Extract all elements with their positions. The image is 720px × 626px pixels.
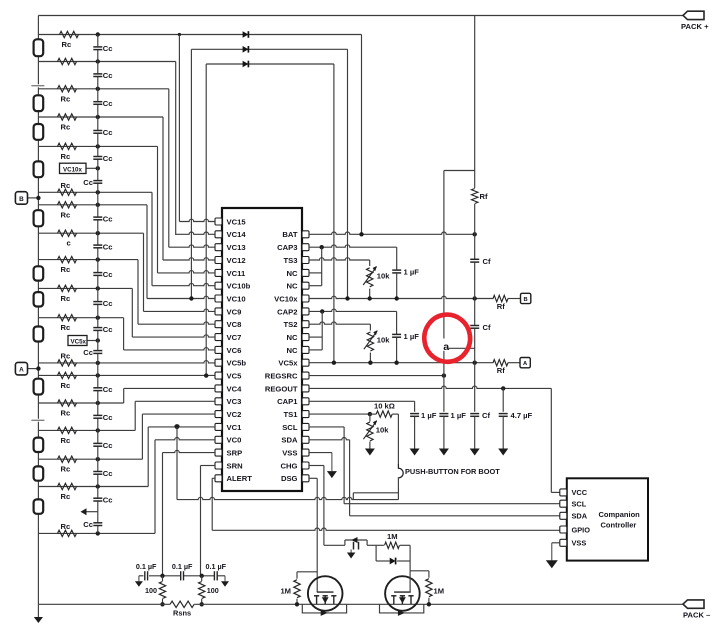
svg-text:10k: 10k — [376, 426, 389, 435]
wire into pin VC11 — [158, 271, 216, 273]
pin box VC2 — [215, 411, 222, 418]
wire tap row 5 — [38, 145, 157, 147]
pin box VC5b — [215, 359, 222, 366]
pin box VSS — [302, 449, 309, 456]
svg-text:0.1 µF: 0.1 µF — [172, 562, 193, 571]
svg-text:Rc: Rc — [62, 40, 72, 49]
pushbutton symbol — [398, 464, 403, 479]
arrow thermistor 2 — [364, 331, 377, 349]
wire into pin VC7 — [132, 335, 215, 337]
wire B tap — [28, 197, 39, 199]
wire riser row16 — [123, 388, 125, 403]
wire VC10x row to Rf — [309, 296, 494, 298]
wire riser row17 — [134, 401, 136, 430]
svg-text:Rc: Rc — [61, 351, 71, 360]
wire top rail PACK+ — [38, 15, 683, 17]
wire SCL to companion — [344, 503, 560, 505]
node CAP2 branch — [320, 309, 324, 313]
wire Cc bus segment — [97, 276, 99, 302]
resistor Rc row 11 — [58, 285, 77, 291]
wire into pin VC4 — [124, 387, 215, 389]
transistor Q1 DSG source arrow — [322, 597, 329, 603]
wire tap row 10 — [38, 259, 138, 261]
wire tap row 9 — [38, 232, 143, 234]
pin box SCL — [302, 423, 309, 430]
wire long vertical VC5 — [205, 64, 207, 376]
node bus junction 7 — [96, 190, 100, 194]
wire dropper row10 — [137, 260, 139, 325]
svg-text:Cc: Cc — [103, 214, 113, 223]
capacitor bank 1 µF — [410, 413, 419, 415]
svg-text:Cc: Cc — [103, 242, 113, 251]
resistor 100 right — [201, 576, 203, 581]
pin box VC3 — [215, 398, 222, 405]
node bus junction 16 — [96, 401, 100, 405]
wire tap row 12 — [38, 317, 123, 319]
pin box VC13 — [215, 244, 222, 251]
svg-text:NC: NC — [286, 333, 298, 342]
battery cell 5 — [34, 210, 44, 226]
wire tap row 8 — [38, 204, 147, 206]
wire into pin VC15 — [179, 219, 215, 221]
capacitor Cc — [93, 387, 102, 389]
chain break tick — [37, 84, 40, 87]
wire bottom rail mid — [194, 603, 683, 605]
wire into pin VC10b — [152, 283, 215, 285]
ground companion VSS — [551, 543, 553, 561]
svg-text:SRN: SRN — [227, 461, 243, 470]
capacitor Cc — [93, 350, 102, 352]
net connector A right — [520, 358, 530, 368]
transistor Q2 CHG circle — [385, 576, 420, 611]
node bus junction row1 — [96, 32, 100, 36]
capacitor Cc — [93, 73, 102, 75]
resistor Rc row 20 — [58, 530, 77, 536]
wire pushbutton vertical upper — [397, 414, 399, 464]
wire CAP1 row — [309, 400, 415, 402]
wire Cf column 2 — [474, 204, 476, 234]
resistor Rc row 1 — [60, 31, 79, 37]
capacitor Cc — [93, 101, 102, 103]
wire tap row 3 — [38, 88, 168, 90]
wire 444 column upper — [443, 171, 445, 339]
svg-text:VC3: VC3 — [227, 397, 242, 406]
wire DSG vertical to gate — [316, 478, 318, 592]
svg-text:B: B — [524, 297, 528, 303]
wire long vertical VC10 — [190, 49, 192, 298]
svg-text:Cc: Cc — [103, 154, 113, 163]
ground bank cap 1 µF — [414, 448, 416, 450]
node VC5x/Cf column — [473, 361, 477, 365]
battery cell 3 — [34, 124, 44, 140]
resistor Rc row 2 — [58, 58, 77, 64]
svg-text:Rc: Rc — [61, 181, 71, 190]
transistor Q1 DSG plate — [331, 595, 336, 597]
node rail SRP — [160, 602, 164, 606]
wire Cf column B-Cf2 — [474, 299, 476, 326]
resistor 1M horizontal — [376, 544, 384, 546]
capacitor 1uF net2 bottom lead — [396, 337, 398, 362]
pin box SRN — [215, 462, 222, 469]
wire Rf to A box — [508, 362, 520, 364]
resistor Rc row 12 — [58, 315, 77, 321]
wire tap row 14 to VC5b — [38, 361, 215, 363]
resistor 1M left — [296, 572, 298, 579]
wire CAP2 row — [309, 309, 397, 311]
wire CAP1 corner down — [414, 401, 416, 412]
IC U1 body — [222, 208, 302, 491]
svg-text:10k: 10k — [377, 272, 390, 281]
capacitor 0.1uF right — [213, 571, 215, 580]
wire pushbutton loop horizontal — [353, 492, 398, 494]
svg-text:VCC: VCC — [572, 488, 588, 497]
transistor Q2 CHG plate — [408, 595, 413, 597]
wire Cc bus segment — [97, 159, 99, 180]
svg-text:Cc: Cc — [103, 71, 113, 80]
capacitor Cc — [93, 301, 102, 303]
svg-text:PUSH-BUTTON FOR BOOT: PUSH-BUTTON FOR BOOT — [405, 467, 500, 476]
node bus junction 10 — [96, 257, 100, 261]
wire TS3 row — [309, 258, 370, 260]
svg-text:VC4: VC4 — [227, 384, 243, 393]
wire VC5x box row — [87, 340, 98, 342]
resistor Rf top — [472, 189, 478, 204]
pin box VC10x — [302, 295, 309, 302]
svg-text:Cc: Cc — [103, 413, 113, 422]
wire tap row 20 — [38, 532, 155, 534]
wire VC10x box row — [86, 167, 98, 169]
companion controller body — [567, 478, 648, 560]
node VC1 junction — [175, 425, 179, 429]
wire into pin VC8 — [138, 322, 215, 324]
svg-text:Rf: Rf — [497, 302, 505, 311]
svg-text:VC10: VC10 — [227, 294, 246, 303]
svg-text:Cc: Cc — [83, 178, 93, 187]
pin box TS3 — [302, 257, 309, 264]
resistor Rf B — [493, 295, 508, 301]
node bus junction 17 — [96, 428, 100, 432]
svg-text:VSS: VSS — [282, 449, 297, 458]
svg-text:Rc: Rc — [61, 522, 71, 531]
wire loop bottom — [376, 560, 390, 562]
svg-text:1 µF: 1 µF — [451, 411, 467, 420]
wire into pin VC14 — [175, 232, 215, 234]
svg-text:VC15: VC15 — [227, 217, 247, 226]
wire SRN vertical — [200, 466, 202, 576]
svg-text:Cf: Cf — [483, 323, 491, 332]
pin box NC — [302, 346, 309, 353]
node TS1 junction — [368, 412, 372, 416]
svg-text:1M: 1M — [434, 587, 445, 596]
resistor Rc row 4 — [58, 114, 77, 120]
svg-text:VC9: VC9 — [227, 307, 242, 316]
wire tap row 15 to VC5 — [38, 374, 215, 376]
svg-text:c: c — [67, 239, 71, 248]
wire NC stub 2 — [309, 285, 322, 287]
pin box VC4 — [215, 385, 222, 392]
svg-text:B: B — [19, 196, 24, 203]
wire Cc bus segment — [97, 526, 99, 534]
wire SDA vertical — [349, 440, 351, 516]
wire CHG to small FET — [324, 544, 345, 546]
capacitor 0.1uF left — [144, 571, 146, 580]
wire dropper row2 to VC14 — [175, 62, 177, 235]
pin box VC7 — [215, 334, 222, 341]
wire into VCC — [551, 491, 560, 493]
wire Cc bus segment — [97, 305, 99, 328]
wire Cc bus segment — [97, 133, 99, 156]
capacitor 0.1uF middle — [180, 571, 182, 580]
transistor Q2 CHG source arrow — [399, 597, 406, 603]
svg-text:VC5b: VC5b — [227, 359, 247, 368]
resistor 10 kOhm body — [370, 413, 376, 415]
wire REGOUT row — [309, 386, 551, 388]
svg-text:VC5x: VC5x — [278, 359, 298, 368]
node 1uF2 bottom — [394, 361, 398, 365]
capacitor Cf 1 — [470, 258, 479, 260]
battery cell 11 — [34, 466, 44, 480]
node CAP3 branch — [320, 245, 324, 249]
wire Cf column top — [474, 16, 476, 189]
svg-text:A: A — [19, 367, 24, 374]
pin box VC10b — [215, 282, 222, 289]
arrow thermistor 3 — [363, 421, 376, 439]
wire tap row 16 — [38, 402, 123, 404]
resistor 10k thermistor 2 — [369, 324, 371, 330]
wire VD1 down to BAT — [361, 35, 363, 235]
wire CAP3 row — [309, 245, 397, 247]
svg-text:VSS: VSS — [572, 539, 587, 548]
wire dropper row11 — [131, 288, 133, 337]
capacitor Cc — [93, 180, 102, 182]
wire BAT row — [309, 232, 475, 234]
pin box REGSRC — [302, 372, 309, 379]
svg-text:Cc: Cc — [103, 99, 113, 108]
svg-text:Cc: Cc — [83, 520, 93, 529]
node bus junction row15 — [96, 373, 100, 377]
svg-text:100: 100 — [145, 586, 157, 595]
svg-text:Cc: Cc — [103, 325, 113, 334]
svg-text:VC0: VC0 — [227, 436, 242, 445]
wire riser VC15 — [178, 35, 180, 222]
svg-text:VC10x: VC10x — [274, 294, 298, 303]
pin box VC15 — [215, 218, 222, 225]
wire 0.1uF row — [139, 575, 144, 577]
resistor Rc row 16 — [58, 400, 77, 406]
capacitor Cc — [93, 216, 102, 218]
capacitor Cc — [93, 272, 102, 274]
wire right FET gate vertical — [409, 571, 411, 592]
node B tap — [36, 196, 40, 200]
wire bank cap bottom 1 µF — [443, 417, 445, 449]
wire 444 jog to Cf column — [448, 347, 475, 349]
node 10k1 bottom — [368, 296, 372, 300]
wire SRP to sense network — [163, 450, 216, 452]
node SRP/cap row — [160, 574, 164, 578]
svg-text:Rc: Rc — [61, 210, 71, 219]
svg-text:VC5: VC5 — [227, 372, 243, 381]
transistor Q2 CHG gate bar — [394, 591, 411, 593]
svg-text:Rc: Rc — [61, 94, 71, 103]
battery cell 10 — [34, 438, 44, 452]
wire VC5x row to Rf — [309, 360, 494, 362]
wire rail drop to chain top — [37, 16, 39, 35]
wire dropper row8 — [146, 205, 148, 299]
svg-text:Cc: Cc — [103, 44, 113, 53]
wire bank cap bottom 4.7 µF — [502, 417, 504, 449]
wire riser row20 — [154, 440, 156, 534]
wire Cc bus segment — [97, 105, 99, 131]
pin box DSG — [302, 475, 309, 482]
svg-text:Rc: Rc — [61, 323, 71, 332]
svg-text:Rc: Rc — [61, 436, 71, 445]
svg-text:10k: 10k — [377, 336, 390, 345]
battery cell 2 — [34, 95, 44, 111]
ground small FET — [350, 550, 352, 553]
node bus junction row14 — [96, 361, 100, 365]
pin box NC — [302, 269, 309, 276]
diode D4 — [390, 558, 396, 565]
pin box CAP1 — [302, 398, 309, 405]
companion pin box VSS — [560, 539, 567, 546]
svg-text:TS1: TS1 — [283, 410, 298, 419]
wire into pin VC2 — [142, 413, 215, 415]
wire Cc bus segment — [97, 50, 99, 74]
capacitor 1uF net1 top lead — [396, 247, 398, 270]
companion pin box SDA — [560, 512, 567, 519]
node VC10x/Cf column — [473, 296, 477, 300]
wire tap row 19 — [38, 486, 148, 488]
wire NC stub 4 — [309, 349, 322, 351]
ground 0.1uF left stub — [138, 576, 140, 582]
wire dropper row4 — [162, 117, 164, 260]
svg-text:Cc: Cc — [103, 469, 113, 478]
svg-text:Cf: Cf — [482, 411, 490, 420]
svg-text:4.7 µF: 4.7 µF — [511, 411, 533, 420]
capacitor bank 4.7 µF — [499, 413, 508, 415]
wire ALERT-GPIO rail — [212, 528, 560, 530]
svg-text:1M: 1M — [280, 587, 291, 596]
capacitor Cc — [93, 442, 102, 444]
wire TS2 row — [309, 322, 370, 324]
diode D1 — [243, 31, 249, 38]
wire SRP vertical — [162, 453, 164, 576]
svg-text:SDA: SDA — [572, 512, 588, 521]
pin box TS2 — [302, 321, 309, 328]
transistor Q2 CHG plate — [391, 595, 396, 597]
svg-text:Cc: Cc — [83, 348, 93, 357]
svg-text:100: 100 — [207, 586, 219, 595]
node VC5x/VD3 — [332, 361, 336, 365]
diode D2 — [243, 46, 249, 53]
pin box VC5 — [215, 372, 222, 379]
resistor Rc row 14 — [58, 360, 77, 366]
wire dropper row7 — [151, 192, 153, 285]
node 1M left rail — [295, 602, 299, 606]
svg-text:10 kΩ: 10 kΩ — [374, 402, 395, 411]
wire gate link right — [410, 570, 429, 572]
wire Cc bus segment — [97, 331, 99, 351]
node A tap — [36, 366, 40, 370]
svg-text:BAT: BAT — [282, 230, 297, 239]
transistor Q1 DSG gate bar — [317, 591, 334, 593]
wire tap row 1 to diode/BAT — [38, 34, 361, 36]
svg-text:Rsns: Rsns — [173, 609, 191, 618]
svg-text:NC: NC — [286, 346, 298, 355]
svg-text:TS3: TS3 — [283, 256, 297, 265]
diode D3 — [243, 61, 249, 68]
svg-text:VC10b: VC10b — [227, 282, 251, 291]
node bus junction VC5x box — [96, 338, 100, 342]
svg-text:Companion: Companion — [599, 510, 641, 519]
resistor c row 9 — [58, 230, 77, 236]
svg-text:Rc: Rc — [61, 409, 71, 418]
resistor Rc row 10 — [58, 256, 77, 262]
wire VC1 vertical to pushbutton line — [176, 427, 178, 500]
companion pin box VCC — [560, 489, 567, 496]
svg-text:Rc: Rc — [61, 265, 71, 274]
battery cell 12 — [34, 499, 44, 513]
node BAT/VD1 — [359, 232, 363, 236]
svg-text:VC10x: VC10x — [63, 166, 82, 173]
resistor Rc row 5 — [58, 143, 77, 149]
wire CHG vertical — [323, 466, 325, 546]
wire dropper row12 — [123, 318, 125, 350]
node bus junction row3 — [96, 87, 100, 91]
wire diode row 3 — [206, 63, 334, 65]
capacitor Cc — [93, 497, 102, 499]
pin box BAT — [302, 231, 309, 238]
resistor Rc row 7 — [58, 189, 77, 195]
svg-text:Cc: Cc — [103, 385, 113, 394]
pin box SDA — [302, 436, 309, 443]
capacitor Cf 2 — [470, 325, 479, 327]
capacitor Cc — [93, 46, 102, 48]
node bus junction row2 — [96, 59, 100, 63]
resistor 10k thermistor 3 — [369, 414, 371, 421]
wire SDA row — [309, 438, 350, 440]
arrow chain continues down — [34, 617, 43, 623]
pin box VC12 — [215, 257, 222, 264]
wire TS1 row — [309, 413, 370, 415]
wire SDA to companion — [350, 515, 560, 517]
wire Cc bus segment — [97, 184, 99, 217]
node riser T row1 — [178, 33, 181, 36]
node VC10 long vertical end — [189, 296, 193, 300]
svg-text:SCL: SCL — [282, 423, 298, 432]
transistor Q2 CHG under loop — [380, 604, 424, 613]
svg-text:CHG: CHG — [281, 461, 298, 470]
wire Cc bus segment — [97, 248, 99, 272]
pin box SRP — [215, 449, 222, 456]
wire chain below rail — [37, 604, 39, 617]
pin box CAP2 — [302, 308, 309, 315]
wire loop left vertical — [375, 545, 377, 561]
wire VD2 down to VC10x row — [347, 49, 349, 298]
resistor Rc row 18 — [58, 456, 77, 462]
svg-text:VC1: VC1 — [227, 423, 243, 432]
svg-text:Controller: Controller — [601, 521, 637, 530]
svg-text:SCL: SCL — [572, 500, 587, 509]
svg-text:Cc: Cc — [103, 128, 113, 137]
pin box VC0 — [215, 436, 222, 443]
pin box CAP3 — [302, 244, 309, 251]
svg-text:Rc: Rc — [61, 465, 71, 474]
wire ALERT vertical — [211, 478, 213, 530]
wire 4.7uF top lead — [502, 388, 504, 411]
annotation red circle — [421, 312, 473, 365]
wire Cc bus segment — [97, 446, 99, 471]
